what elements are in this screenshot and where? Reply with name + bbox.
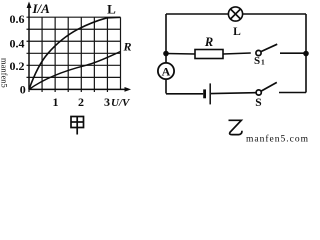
svg-text:I/A: I/A [32, 1, 51, 16]
svg-text:0.4: 0.4 [10, 37, 25, 51]
svg-text:U/V: U/V [111, 97, 131, 109]
svg-text:0.6: 0.6 [10, 12, 25, 26]
graph grid [27, 17, 121, 92]
wire bottom-left-to-battery [166, 93, 203, 95]
x axis U/V [29, 88, 129, 90]
caption 甲 (drawn) [71, 117, 84, 135]
switch S [256, 82, 277, 95]
svg-text:L: L [107, 2, 116, 17]
wire battery-to-switch [211, 92, 256, 95]
wire resistor-to-switch [223, 53, 251, 54]
svg-text:3: 3 [104, 95, 110, 109]
battery cell [203, 89, 206, 98]
wire ammeter-to-bottom [165, 79, 167, 94]
svg-text:A: A [162, 65, 171, 79]
svg-text:S: S [254, 55, 260, 67]
svg-text:1: 1 [53, 95, 59, 109]
svg-text:R: R [123, 40, 132, 54]
svg-text:0.2: 0.2 [10, 59, 25, 73]
svg-text:manfen5.com: manfen5.com [246, 134, 309, 144]
svg-text:S: S [255, 97, 261, 109]
wire lamp-to-topright [243, 13, 306, 15]
resistor R [195, 50, 223, 59]
y axis I/A [28, 4, 30, 89]
caption 乙 (drawn) [229, 120, 243, 134]
wire right vertical [305, 14, 307, 93]
node junction right [303, 51, 309, 57]
wire top left-to-lamp [166, 13, 228, 15]
ammeter A [158, 63, 174, 79]
svg-text:1: 1 [261, 57, 265, 66]
switch S1 [256, 44, 277, 55]
lamp L (circle with X) [228, 7, 242, 21]
svg-text:0: 0 [20, 83, 26, 97]
curve L (lamp) [29, 17, 121, 89]
svg-text:R: R [204, 35, 213, 49]
svg-text:manfen5: manfen5 [0, 58, 10, 88]
svg-text:2: 2 [78, 95, 84, 109]
wire junction-to-resistor [166, 53, 195, 56]
wire left vertical [165, 14, 167, 63]
wire switch-to-bottomright [279, 92, 306, 94]
curve R (resistor straight line) [29, 52, 121, 90]
svg-text:L: L [233, 26, 241, 38]
wire switch-to-right [280, 52, 306, 54]
node junction left [163, 51, 169, 57]
